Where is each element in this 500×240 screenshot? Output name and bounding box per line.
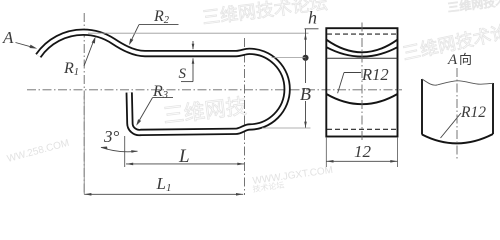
right edge — [492, 83, 494, 134]
center line vertical through hump x=84 — [83, 13, 85, 195]
thin line under band — [326, 57, 397, 59]
h extension line from hump — [88, 32, 309, 34]
bottom arc — [422, 134, 493, 143]
extension line at dot level — [272, 57, 306, 59]
h dimension line — [305, 29, 307, 58]
dot node — [302, 55, 308, 61]
rect border — [326, 28, 397, 136]
svg-text:h: h — [308, 8, 317, 28]
svg-text:向: 向 — [459, 52, 472, 67]
clip strip outline (black band) — [38, 32, 287, 132]
hidden dashed line bottom — [327, 128, 397, 130]
leader for R1 — [84, 39, 95, 67]
L dimension — [126, 163, 245, 165]
top band upper arc — [326, 40, 397, 53]
svg-text:B: B — [300, 84, 311, 104]
3 degree reference line — [124, 136, 126, 167]
3 degree arc — [101, 147, 138, 152]
leader for R3 — [138, 98, 153, 124]
leader for R2 — [130, 25, 139, 43]
hidden dashed line top — [327, 33, 397, 35]
svg-text:A: A — [2, 28, 14, 47]
L1 dimension — [84, 193, 243, 195]
s dimension — [192, 41, 194, 49]
svg-text:12: 12 — [354, 142, 372, 161]
svg-text:A: A — [447, 52, 458, 68]
section vertical center line — [361, 23, 363, 143]
strip inner white — [38, 32, 287, 132]
right view center line — [456, 68, 458, 160]
B dimension line — [305, 58, 307, 83]
svg-text:L: L — [178, 146, 190, 167]
leader for A — [16, 43, 35, 48]
mid arc — [326, 94, 397, 104]
top band lower arc — [326, 47, 397, 56]
main horizontal center line y=89.8 — [27, 89, 402, 91]
svg-text:R12: R12 — [460, 104, 486, 121]
12 dimension — [325, 137, 327, 167]
left edge — [421, 79, 423, 135]
L1 left extension (solid part over dashdot) — [83, 96, 85, 194]
h shelf and label — [305, 28, 319, 30]
top wavy break line — [422, 79, 493, 85]
svg-text:S: S — [179, 66, 187, 82]
svg-text:3°: 3° — [103, 127, 120, 146]
center line vertical through U-turn x=244.5 — [244, 38, 246, 195]
svg-text:R12: R12 — [361, 65, 389, 84]
bottom extension line for B — [262, 127, 311, 129]
